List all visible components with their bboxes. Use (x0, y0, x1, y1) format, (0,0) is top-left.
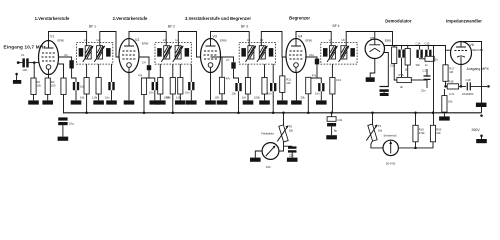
svg-text:20k: 20k (301, 95, 306, 99)
wire to bus (307, 94, 309, 113)
resistor R5 (98, 64, 100, 77)
svg-text:10n: 10n (105, 95, 110, 99)
svg-text:8µ: 8µ (334, 129, 337, 133)
wire V6 cathode (460, 64, 462, 86)
resistor R1 (33, 63, 36, 78)
svg-text:10k: 10k (378, 129, 383, 133)
svg-text:100k: 100k (254, 95, 260, 99)
resistor R15 (331, 64, 333, 77)
resistor R17 horizontal (397, 77, 411, 82)
resistor R6 (143, 77, 145, 79)
resistor R7 (159, 64, 161, 77)
ground (13, 80, 21, 84)
svg-text:47k: 47k (312, 74, 317, 78)
wire V4 cathode to ground (295, 73, 297, 101)
capacitor C22 (288, 146, 297, 148)
capacitor C18 (467, 82, 470, 90)
svg-text:3.Verstärkerstufe und Begrenze: 3.Verstärkerstufe und Begrenzer (185, 16, 251, 21)
capacitor C13 (318, 83, 324, 91)
svg-text:33n: 33n (416, 63, 421, 67)
svg-text:260V: 260V (472, 128, 481, 132)
wire demod output down (433, 46, 435, 126)
svg-text:L8: L8 (342, 38, 345, 42)
svg-text:Ausgang MPX: Ausgang MPX (467, 67, 490, 71)
svg-text:100: 100 (215, 95, 220, 99)
capacitor C6 (111, 64, 113, 82)
svg-text:Impedanzwandler: Impedanzwandler (446, 19, 482, 24)
ground (58, 137, 69, 141)
svg-text:4,7k: 4,7k (449, 92, 455, 96)
ground (42, 100, 53, 104)
ground (71, 100, 82, 104)
capacitor C11 (272, 64, 274, 83)
svg-text:L3: L3 (163, 38, 166, 42)
tube V2 EF80 (119, 39, 139, 73)
wire V3 anode to BF3 primary (211, 32, 250, 46)
wire V5 top lead (374, 32, 376, 40)
wire to V6 grid (434, 46, 451, 51)
tube V4 EF80 (286, 39, 306, 73)
svg-text:EB91: EB91 (385, 38, 392, 42)
svg-text:P1: P1 (378, 124, 382, 128)
capacitor C1 (22, 58, 25, 67)
ground bus wire (63, 112, 482, 114)
meter M2 (Abstimmanzeige 50-0-50) (383, 140, 398, 155)
svg-text:C2: C2 (64, 53, 68, 57)
svg-text:L5: L5 (247, 38, 250, 42)
wire meter to ground (255, 151, 262, 158)
ground (output) (476, 103, 487, 107)
svg-text:EF80: EF80 (220, 39, 227, 43)
svg-text:10k: 10k (289, 129, 294, 133)
svg-text:1n: 1n (425, 63, 428, 67)
wire V2 cathode to ground (128, 73, 130, 101)
svg-text:C12: C12 (309, 53, 314, 57)
svg-text:V2: V2 (135, 38, 139, 42)
resistor R16 (393, 46, 395, 48)
svg-text:V5: V5 (370, 36, 374, 40)
svg-text:100: 100 (266, 165, 271, 169)
resistor R2 (cathode) (47, 75, 50, 79)
svg-text:C14: C14 (416, 41, 421, 45)
resistor R11 (247, 64, 249, 77)
ground (316, 100, 327, 104)
svg-text:C15: C15 (425, 41, 430, 45)
capacitor C9 (211, 57, 234, 62)
capacitor C20 (401, 46, 403, 50)
svg-text:1,8k: 1,8k (176, 95, 182, 99)
ground (150, 100, 161, 104)
wire to bus (272, 91, 274, 113)
svg-text:L7: L7 (329, 38, 332, 42)
capacitor C7 (152, 82, 158, 90)
resistor R10 (221, 57, 223, 77)
wire BF3 secondary to V4 grid (261, 32, 286, 58)
capacitor C12 (306, 57, 317, 59)
tube V1 EF80 (39, 41, 59, 75)
wire pot to meter and C22 (279, 142, 292, 151)
wire to bus (143, 95, 145, 113)
bandfilter BF3 (239, 42, 275, 64)
svg-text:C21: C21 (338, 118, 343, 122)
resistor R9 (179, 64, 181, 77)
capacitor C21 electrolytic (331, 113, 333, 117)
ground (439, 116, 450, 120)
svg-text:C18: C18 (466, 78, 471, 82)
wire BF1 secondary top to V2 grid (100, 32, 120, 58)
wire BF4 secondary to V5 (346, 32, 392, 46)
resistor R20 horizontal (447, 84, 458, 89)
svg-text:R2: R2 (51, 80, 55, 84)
wire V2 anode to BF2 primary (129, 32, 166, 46)
capacitor C3 (73, 82, 79, 90)
ground (366, 77, 375, 82)
wire to bus (238, 91, 240, 113)
potentiometer P2 Feldstärke (282, 112, 285, 115)
resistor R12 (264, 64, 266, 77)
svg-text:1.Verstärkerstufe: 1.Verstärkerstufe (35, 16, 70, 21)
svg-text:BF 2: BF 2 (168, 25, 175, 29)
svg-text:Demodulator: Demodulator (385, 19, 412, 24)
svg-text:L1: L1 (84, 38, 87, 42)
svg-text:V6: V6 (470, 43, 474, 47)
svg-text:C13: C13 (336, 78, 341, 82)
wire C18 to output terminal (470, 85, 487, 87)
svg-text:10k: 10k (436, 131, 441, 135)
node input junction (33, 61, 36, 64)
wire C1 to V1 grid (29, 62, 40, 64)
meter M1 (Feldstärke 100µA) (262, 143, 279, 160)
svg-text:Feldstärke: Feldstärke (261, 132, 274, 136)
resistor R14 (306, 77, 311, 94)
wire C2 down (72, 69, 76, 83)
wire V5 cathode to ground (370, 59, 375, 78)
svg-text:47k: 47k (226, 77, 231, 81)
resistor R13 (grid leak V4) (281, 57, 283, 76)
svg-text:BF 1: BF 1 (89, 25, 96, 29)
wire to bus (172, 94, 174, 113)
svg-text:EF80: EF80 (306, 39, 313, 43)
wire input to C1 (18, 62, 22, 64)
svg-text:10n: 10n (315, 92, 320, 96)
potentiometer P1 Sendernull (371, 112, 374, 115)
svg-text:R15: R15 (399, 73, 404, 77)
ground (124, 100, 135, 104)
capacitor C4 (139, 57, 149, 65)
svg-text:V4: V4 (298, 35, 302, 39)
capacitor C2 (59, 57, 72, 60)
svg-text:470: 470 (166, 95, 171, 99)
svg-text:V3: V3 (213, 35, 217, 39)
svg-text:BF 3: BF 3 (241, 25, 248, 29)
svg-text:BF 4: BF 4 (333, 24, 340, 28)
ground (476, 139, 487, 143)
capacitor C14 (419, 46, 421, 50)
ground (217, 100, 228, 104)
wire V3 cathode to ground (210, 73, 212, 101)
ground (291, 100, 302, 104)
ground (93, 100, 104, 104)
resistor R19 (grid) (445, 50, 447, 65)
bandfilter BF4 (321, 42, 357, 64)
wire meter to resistors (398, 142, 433, 148)
ground (250, 158, 261, 162)
resistor R23 10k (432, 112, 435, 115)
svg-text:R19: R19 (419, 128, 424, 132)
svg-text:R17: R17 (449, 67, 454, 71)
wire to bus and C21 (331, 94, 333, 113)
capacitor C17 (426, 69, 428, 76)
svg-text:100: 100 (51, 84, 56, 88)
wire to bus (63, 95, 65, 113)
svg-text:Begrenzer: Begrenzer (289, 15, 310, 20)
wire pot to meter loop (371, 141, 383, 148)
capacitor C15 (427, 46, 429, 50)
resistor R4 (screen) (58, 64, 64, 78)
ground (28, 100, 39, 104)
svg-text:10n: 10n (149, 91, 154, 95)
svg-text:C1: C1 (21, 53, 25, 57)
wire V5 output line (385, 45, 434, 47)
resistor R18 horizontal (425, 56, 434, 61)
ground (277, 100, 288, 104)
svg-text:2.Verstärkerstufe: 2.Verstärkerstufe (113, 16, 148, 21)
capacitor C5 electrolytic (58, 117, 67, 120)
ground (155, 100, 166, 104)
ground (243, 100, 254, 104)
svg-text:22n: 22n (289, 154, 294, 158)
ground (259, 100, 270, 104)
tube V3 EF80 (201, 39, 221, 73)
svg-text:22n: 22n (421, 89, 426, 93)
tube V5 EB91 demodulator (365, 39, 384, 58)
wire V5 lower output (384, 53, 389, 87)
ground (175, 100, 186, 104)
svg-text:C17: C17 (423, 69, 428, 73)
svg-text:10k: 10k (286, 81, 291, 85)
wire to bus (86, 94, 88, 113)
svg-text:102: 102 (22, 68, 27, 72)
wire V4 anode to BF4 primary (296, 32, 331, 46)
svg-text:EF80: EF80 (58, 39, 65, 43)
bandfilter BF2 (155, 42, 191, 64)
svg-text:C4: C4 (142, 61, 146, 65)
ground (186, 100, 197, 104)
svg-text:10k: 10k (448, 100, 453, 104)
svg-text:EF80: EF80 (142, 42, 149, 46)
resistor R3 (86, 64, 88, 77)
tube V6 1/2 ECC81 (451, 42, 472, 65)
ground (106, 100, 117, 104)
svg-text:R20: R20 (436, 128, 441, 132)
resistor R21 (cathode load) (443, 89, 445, 96)
bandfilter BF1 (77, 42, 113, 64)
wire BF2 secondary to V3 grid (178, 32, 201, 58)
svg-text:1,8k: 1,8k (92, 95, 98, 99)
svg-text:R11: R11 (286, 78, 291, 82)
resistor R22 470k (414, 112, 417, 115)
resistor R24 (405, 49, 410, 66)
wire V6 anode to 260V rail (461, 42, 482, 113)
svg-text:470k: 470k (419, 131, 425, 135)
svg-text:10n: 10n (267, 92, 272, 96)
wire V1 anode to BF1 primary (49, 32, 87, 46)
capacitor C10 (235, 83, 241, 91)
resistor R8 (172, 64, 174, 77)
svg-text:10k: 10k (37, 84, 42, 88)
260V terminal (480, 114, 483, 117)
svg-text:47k: 47k (138, 74, 143, 78)
svg-text:P2: P2 (289, 125, 293, 129)
capacitor C16 electrolytic (380, 86, 389, 88)
svg-text:R1: R1 (37, 80, 41, 84)
svg-text:V1: V1 (50, 35, 54, 39)
svg-text:22n/630V: 22n/630V (462, 92, 474, 96)
ground (205, 100, 216, 104)
ground (287, 158, 298, 162)
capacitor C8 (190, 64, 192, 82)
input ground terminal (15, 73, 18, 76)
svg-text:50-0-50: 50-0-50 (386, 162, 396, 166)
svg-text:10k: 10k (80, 95, 85, 99)
svg-text:10µ: 10µ (69, 122, 74, 126)
svg-text:R18: R18 (449, 80, 454, 84)
svg-text:10n: 10n (185, 91, 190, 95)
svg-text:10n: 10n (232, 92, 237, 96)
svg-text:C7: C7 (226, 58, 230, 62)
ground (326, 135, 337, 139)
input terminal (17, 61, 20, 64)
svg-text:Sendernull: Sendernull (384, 134, 397, 138)
